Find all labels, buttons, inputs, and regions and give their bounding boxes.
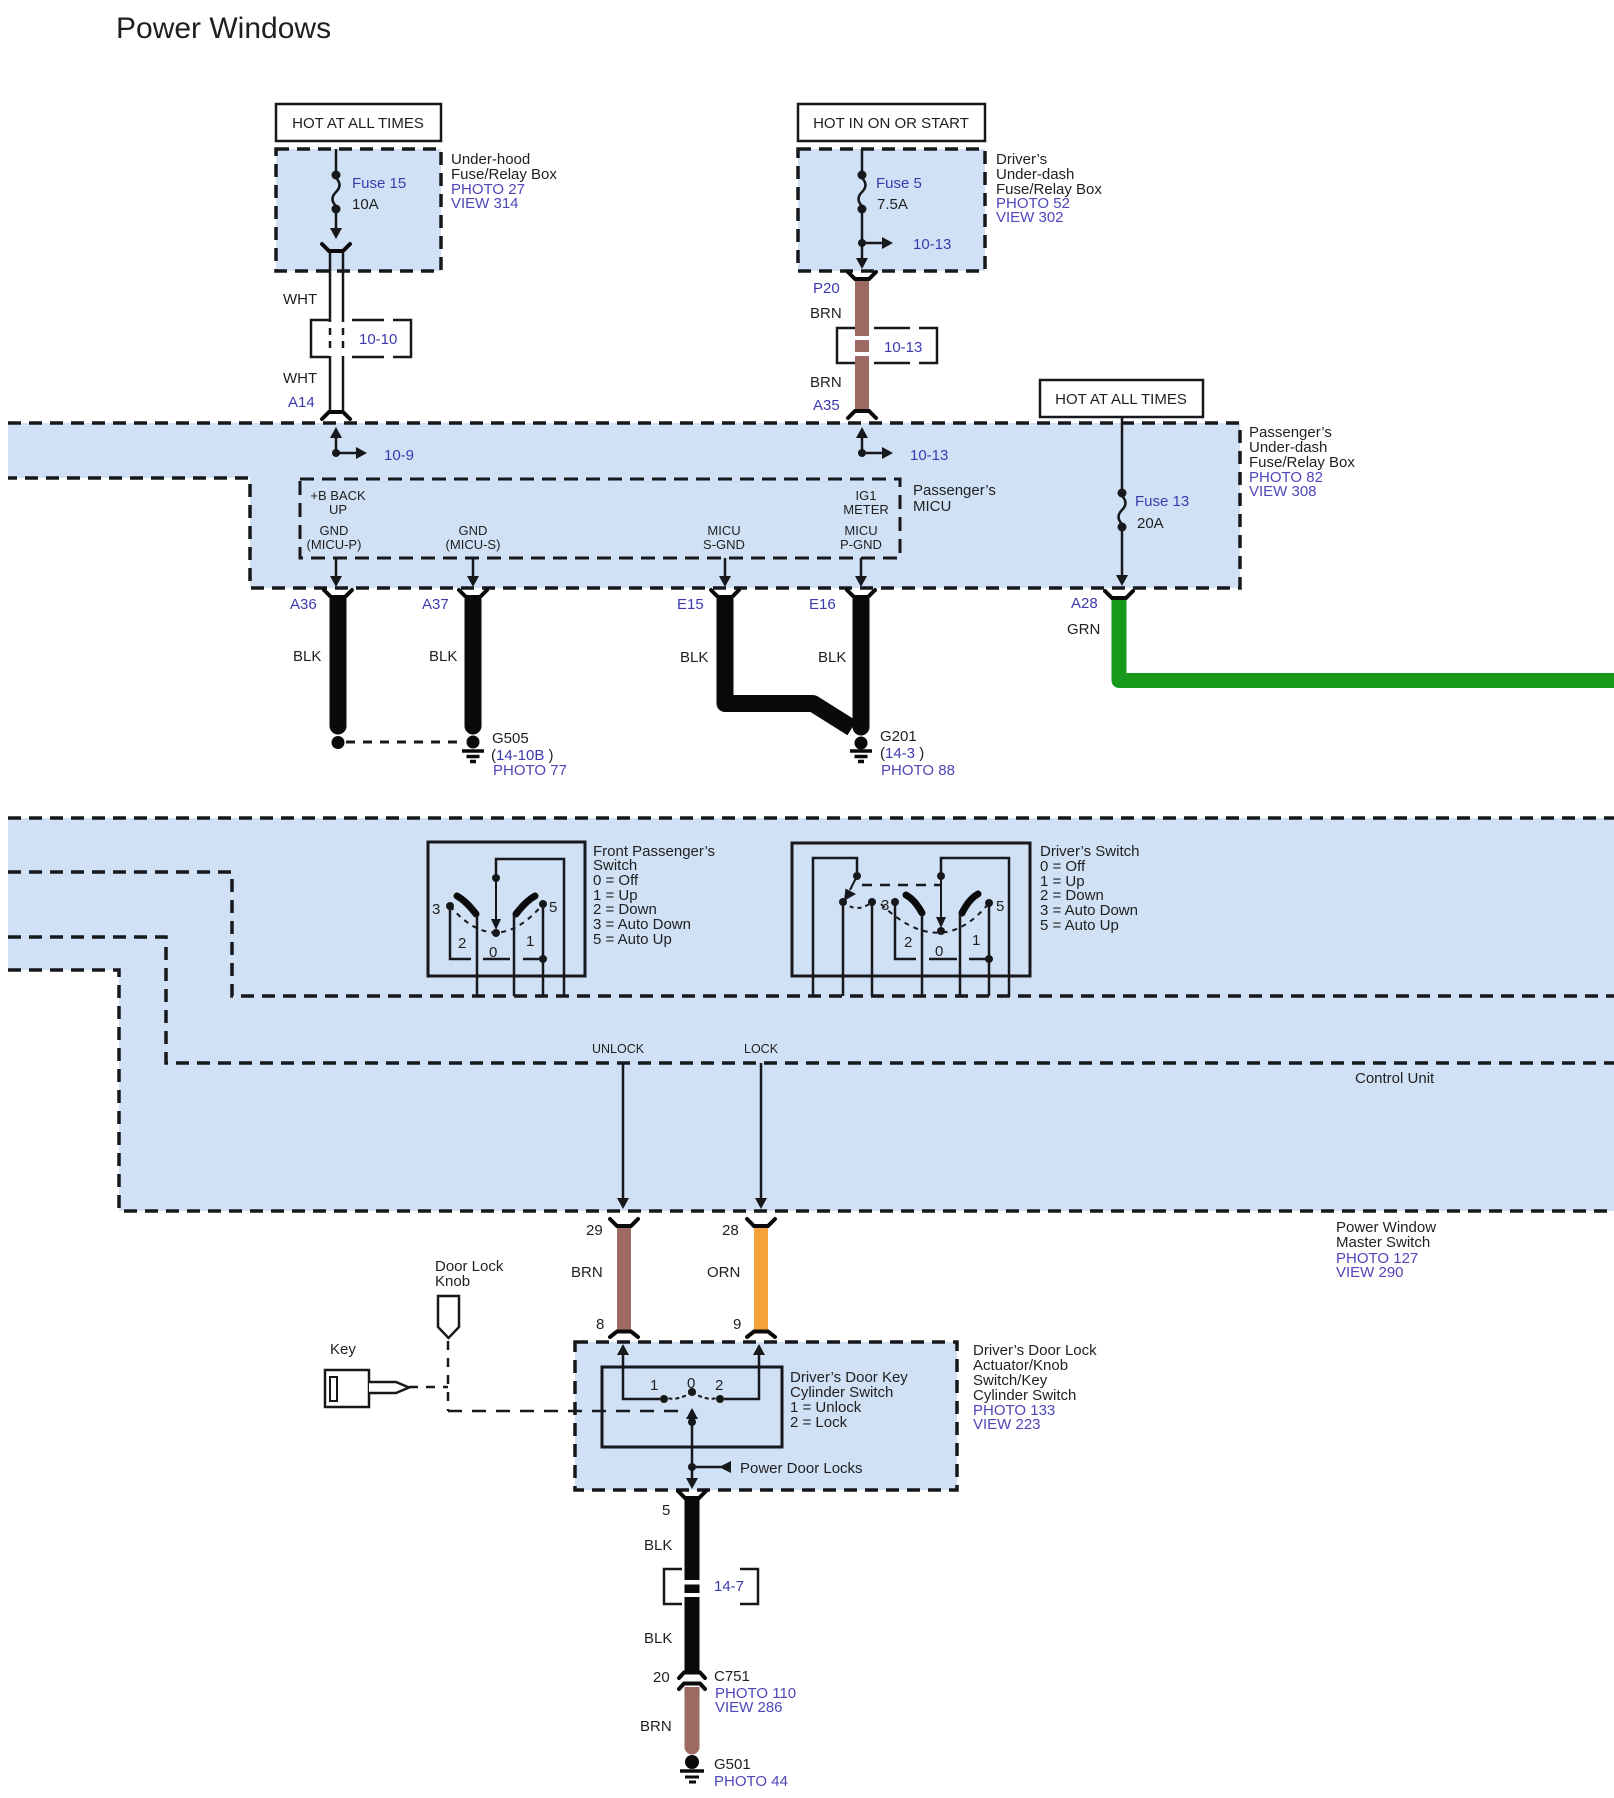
node A35 entry arrow and 10-13 branch [856, 427, 948, 464]
ground G501 [680, 1755, 704, 1782]
label Door Lock Knob [435, 1258, 504, 1290]
pin label P20 [813, 280, 840, 297]
label Driver's Switch legend [1040, 843, 1139, 934]
svg-text:WHT: WHT [283, 370, 317, 387]
label G505 [491, 730, 567, 779]
pin 5 connector [662, 1491, 706, 1519]
wire dashed mechanical link (key and knob) [409, 1341, 685, 1411]
connector bracket bottom of WHT wire [322, 412, 350, 419]
pin label A28 [1071, 595, 1098, 612]
box Passenger's Under-dash Fuse/Relay Box (MICU region) [8, 423, 1240, 588]
svg-text:Passenger’s: Passenger’s [913, 482, 996, 499]
svg-text:MICU: MICU [844, 523, 877, 538]
svg-text:BLK: BLK [644, 1630, 672, 1647]
label Under-hood Fuse/Relay Box [451, 151, 557, 212]
svg-text:Key: Key [330, 1341, 356, 1358]
svg-text:0: 0 [489, 944, 497, 961]
svg-text:G501: G501 [714, 1756, 751, 1773]
svg-text:BRN: BRN [810, 374, 842, 391]
label BLK (E16) [818, 649, 846, 666]
wire BRN 29-8 [571, 1228, 631, 1331]
svg-text:10-13: 10-13 [910, 447, 948, 464]
svg-text:10-13: 10-13 [884, 339, 922, 356]
label BRN upper [810, 305, 842, 322]
svg-text:S-GND: S-GND [703, 537, 745, 552]
connector bracket E16 [847, 590, 875, 597]
svg-text:Fuse 5: Fuse 5 [876, 175, 922, 192]
label Driver's Door Lock Actuator/Knob Switch/Key Cylinder Switch [973, 1342, 1097, 1433]
svg-text:28: 28 [722, 1222, 739, 1239]
label Passenger's Under-dash Fuse/Relay Box [1249, 424, 1355, 500]
svg-text:P-GND: P-GND [840, 537, 882, 552]
svg-text:Master Switch: Master Switch [1336, 1234, 1430, 1251]
label Power Window Master Switch [1336, 1219, 1436, 1281]
svg-text:BRN: BRN [640, 1718, 672, 1735]
label Front Passenger's Switch legend [593, 843, 715, 948]
pin 9 connector [733, 1316, 775, 1337]
power label HOT AT ALL TIMES (left) [276, 104, 441, 141]
pin MICU P-GND [840, 523, 882, 552]
svg-text:VIEW 314: VIEW 314 [451, 195, 519, 212]
box Driver's Under-dash Fuse/Relay Box [798, 149, 985, 271]
svg-text:BLK: BLK [644, 1537, 672, 1554]
pin label A35 [813, 397, 840, 414]
svg-text:Power Windows: Power Windows [116, 12, 331, 45]
svg-text:10-9: 10-9 [384, 447, 414, 464]
wire pin8 to contact 1 [617, 1344, 660, 1399]
svg-text:P20: P20 [813, 280, 840, 297]
connector 10-10 [311, 320, 411, 357]
pin GND (MICU-S) [446, 523, 501, 552]
svg-text:5: 5 [549, 899, 557, 916]
svg-text:PHOTO 88: PHOTO 88 [881, 762, 955, 779]
svg-text:Power Door Locks: Power Door Locks [740, 1460, 863, 1477]
svg-text:(MICU-P): (MICU-P) [307, 537, 362, 552]
wire ORN 28-9 [707, 1228, 768, 1331]
wire LOCK [744, 1042, 779, 1209]
wire key cylinder common [686, 1408, 863, 1489]
box Driver's Door Key Cylinder Switch (inner) [602, 1367, 782, 1447]
svg-text:HOT AT ALL TIMES: HOT AT ALL TIMES [1055, 391, 1187, 408]
svg-text:8: 8 [596, 1316, 604, 1333]
front passenger switch internals [432, 859, 564, 996]
pin GND (MICU-P) [307, 523, 362, 552]
connector bracket A36 [324, 590, 352, 597]
pin MICU S-GND [703, 523, 745, 552]
svg-text:10-10: 10-10 [359, 331, 397, 348]
label Driver's Door Key Cylinder Switch [790, 1369, 908, 1431]
driver's switch internals [813, 858, 1009, 996]
svg-text:PHOTO 44: PHOTO 44 [714, 1773, 788, 1790]
svg-text:PHOTO 77: PHOTO 77 [493, 762, 567, 779]
box sub-boundary (control unit, cut at left) [8, 937, 1614, 1063]
svg-text:0: 0 [687, 1375, 695, 1392]
pin 20 / connector C751 [653, 1669, 705, 1689]
wire UNLOCK [592, 1042, 645, 1209]
box Under-hood Fuse/Relay Box [276, 149, 441, 271]
svg-text:5: 5 [662, 1502, 670, 1519]
svg-text:VIEW 308: VIEW 308 [1249, 483, 1317, 500]
svg-text:20A: 20A [1137, 515, 1164, 532]
fuse Fuse 15 10A [330, 149, 406, 239]
label WHT lower [283, 370, 317, 387]
symbol door lock knob [438, 1296, 459, 1338]
switch key cylinder contacts [650, 1375, 724, 1403]
svg-text:7.5A: 7.5A [877, 196, 908, 213]
svg-text:HOT IN ON OR START: HOT IN ON OR START [813, 115, 969, 132]
pin label E15 [677, 596, 704, 613]
box Power Window Master Switch (region) [8, 818, 1614, 1211]
pin label A14 [288, 394, 315, 411]
pin arrow E15 [719, 558, 731, 587]
svg-text:Fuse 13: Fuse 13 [1135, 493, 1189, 510]
pin arrow A36 [330, 558, 342, 587]
symbol key [325, 1370, 409, 1407]
svg-text:Control Unit: Control Unit [1355, 1070, 1435, 1087]
svg-text:1: 1 [650, 1377, 658, 1394]
svg-text:BLK: BLK [429, 648, 457, 665]
svg-text:HOT AT ALL TIMES: HOT AT ALL TIMES [292, 115, 424, 132]
wire branch to 10-13 (inside driver's box) [858, 236, 951, 253]
connector bracket A28 [1105, 591, 1133, 598]
svg-text:GRN: GRN [1067, 621, 1100, 638]
svg-text:UP: UP [329, 502, 347, 517]
fuse Fuse 13 20A [1116, 417, 1189, 586]
switch Driver's Switch box [792, 843, 1030, 976]
title Power Windows [116, 12, 331, 45]
pin label A36 [290, 596, 317, 613]
svg-text:GND: GND [320, 523, 349, 538]
wire WHT (white) A14 [330, 253, 343, 410]
pin arrow E16 [855, 558, 867, 587]
label BRN lower [810, 374, 842, 391]
box Driver's Door Lock Actuator [575, 1342, 957, 1490]
svg-text:VIEW 286: VIEW 286 [715, 1699, 783, 1716]
pin 8 connector [596, 1316, 638, 1337]
svg-text:A35: A35 [813, 397, 840, 414]
label BLK (A36) [293, 648, 321, 665]
svg-text:A37: A37 [422, 596, 449, 613]
pin 28 connector [722, 1219, 775, 1239]
label Driver's Under-dash Fuse/Relay Box [996, 151, 1102, 226]
svg-text:VIEW 302: VIEW 302 [996, 209, 1064, 226]
label WHT upper [283, 291, 317, 308]
svg-text:9: 9 [733, 1316, 741, 1333]
box sub-boundary (switch row, cut at left) [8, 872, 1614, 996]
svg-text:1: 1 [972, 932, 980, 949]
box Passenger's MICU (inner) [300, 479, 900, 558]
pin +B BACK UP [310, 488, 366, 517]
wire GRN A28 (to page right) [1119, 600, 1614, 681]
node A14 entry arrow and 10-9 branch [330, 427, 414, 464]
svg-text:VIEW 223: VIEW 223 [973, 1416, 1041, 1433]
svg-text:LOCK: LOCK [744, 1042, 779, 1056]
svg-text:14-7: 14-7 [714, 1578, 744, 1595]
svg-text:3: 3 [881, 897, 889, 914]
svg-text:BLK: BLK [680, 649, 708, 666]
wire dashed ground link A36-G505 [346, 741, 465, 744]
label C751 [714, 1668, 796, 1716]
label BLK (E15) [680, 649, 708, 666]
svg-text:VIEW 290: VIEW 290 [1336, 1264, 1404, 1281]
svg-text:Knob: Knob [435, 1273, 470, 1290]
wire BLK E16 to ground G201 [853, 599, 870, 736]
wire BRN P20-A35 [855, 281, 869, 411]
svg-text:0: 0 [935, 943, 943, 960]
connector bracket A35 [848, 411, 876, 418]
svg-text:A36: A36 [290, 596, 317, 613]
wire BLK E15 (bends to G201) [725, 599, 852, 728]
svg-text:3: 3 [432, 901, 440, 918]
connector 10-13 inline [837, 328, 937, 363]
label BLK (A37) [429, 648, 457, 665]
svg-text:5 = Auto Up: 5 = Auto Up [593, 931, 672, 948]
svg-text:ORN: ORN [707, 1264, 740, 1281]
svg-text:5: 5 [996, 898, 1004, 915]
wire BLK A37 to ground G505 [465, 599, 482, 735]
connector bracket A37 [459, 590, 487, 597]
svg-text:UNLOCK: UNLOCK [592, 1042, 645, 1056]
svg-text:10-13: 10-13 [913, 236, 951, 253]
svg-text:G201: G201 [880, 728, 917, 745]
connector bracket P20 [848, 272, 876, 279]
svg-text:20: 20 [653, 1669, 670, 1686]
label Passenger's MICU [913, 482, 996, 515]
svg-text:+B BACK: +B BACK [310, 488, 366, 503]
pin label E16 [809, 596, 836, 613]
svg-text:GND: GND [459, 523, 488, 538]
svg-text:Fuse 15: Fuse 15 [352, 175, 406, 192]
svg-text:A28: A28 [1071, 595, 1098, 612]
svg-text:MICU: MICU [913, 498, 951, 515]
svg-text:5 = Auto Up: 5 = Auto Up [1040, 917, 1119, 934]
fuse Fuse 5 7.5A [858, 149, 922, 258]
pin label A37 [422, 596, 449, 613]
svg-text:2: 2 [458, 935, 466, 952]
power label HOT AT ALL TIMES (right) [1040, 380, 1203, 417]
svg-text:A14: A14 [288, 394, 315, 411]
svg-text:1: 1 [526, 933, 534, 950]
arrow at driver's box exit [856, 258, 868, 269]
pin 29 connector [586, 1219, 638, 1239]
label GRN [1067, 621, 1100, 638]
svg-text:(14-3 ): (14-3 ) [880, 745, 924, 762]
svg-text:C751: C751 [714, 1668, 750, 1685]
pin arrow A37 [467, 558, 479, 587]
wire BRN 20 to G501 [640, 1687, 700, 1755]
svg-text:BLK: BLK [293, 648, 321, 665]
svg-text:(MICU-S): (MICU-S) [446, 537, 501, 552]
svg-text:IG1: IG1 [856, 488, 877, 503]
svg-text:10A: 10A [352, 196, 379, 213]
label Control Unit [1355, 1070, 1435, 1087]
connector bracket top of WHT wire [322, 244, 350, 251]
label G501 [714, 1756, 788, 1790]
wire BLK 14-7 to C751 [644, 1597, 700, 1671]
svg-text:BLK: BLK [818, 649, 846, 666]
svg-text:29: 29 [586, 1222, 603, 1239]
svg-text:BRN: BRN [571, 1264, 603, 1281]
power label HOT IN ON OR START [798, 104, 985, 141]
ground G201 [850, 737, 872, 762]
svg-text:METER: METER [843, 502, 889, 517]
svg-text:WHT: WHT [283, 291, 317, 308]
connector 14-7 inline [664, 1569, 758, 1604]
svg-text:MICU: MICU [707, 523, 740, 538]
svg-text:G505: G505 [492, 730, 529, 747]
connector bracket E15 [711, 590, 739, 597]
svg-text:2 = Lock: 2 = Lock [790, 1414, 848, 1431]
svg-text:2: 2 [715, 1377, 723, 1394]
wire BLK A36 to ground [330, 599, 347, 749]
switch Front Passenger's Switch box [428, 842, 585, 976]
svg-text:BRN: BRN [810, 305, 842, 322]
svg-text:2: 2 [904, 934, 912, 951]
pin IG1 METER [843, 488, 889, 517]
wire pin9 to contact 2 [724, 1344, 765, 1399]
wire BLK 5 to 14-7 [644, 1500, 700, 1580]
svg-text:E16: E16 [809, 596, 836, 613]
ground G505 [462, 736, 484, 762]
svg-text:E15: E15 [677, 596, 704, 613]
label G201 [880, 728, 955, 779]
label Key [330, 1341, 356, 1358]
